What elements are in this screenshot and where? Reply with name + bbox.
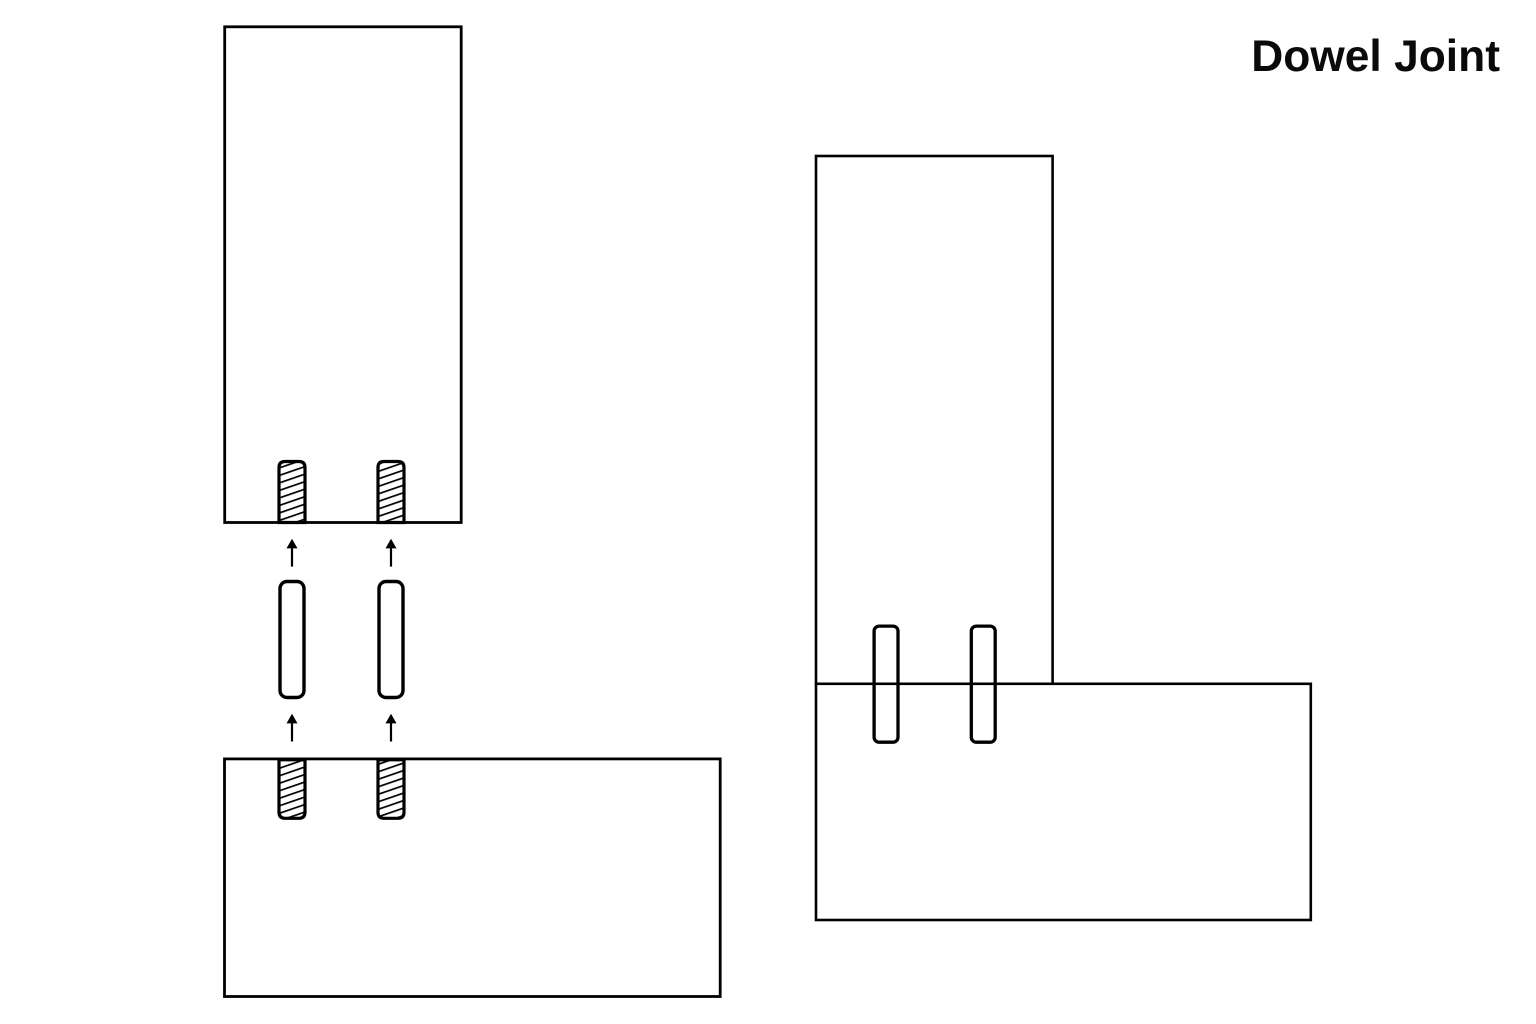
svg-text:Dowel Joint: Dowel Joint	[1251, 32, 1500, 81]
dowel pin 1 (free, left column)	[280, 582, 304, 698]
dowel pin 2 (free, right column)	[379, 582, 403, 698]
dowel pin 3 (hidden inside assembled joint, left)	[874, 626, 898, 742]
board C: vertical board of assembled joint (right)	[816, 156, 1053, 684]
board A: upper vertical board (exploded view, left)	[225, 27, 462, 523]
dowel pin 4 (hidden inside assembled joint, right)	[971, 626, 995, 742]
arrow: upper right insertion arrow	[386, 539, 397, 567]
arrow: lower right insertion arrow	[386, 714, 397, 742]
board D: horizontal board of assembled joint (right)	[816, 684, 1311, 920]
arrow: upper left insertion arrow	[287, 539, 298, 567]
dowel hole B1 (hatched) in board B	[279, 760, 305, 819]
board B: lower horizontal board (exploded view, left)	[225, 759, 721, 997]
dowel hole A2 (hatched) in board A	[378, 462, 404, 523]
dowel hole B2 (hatched) in board B	[378, 760, 404, 819]
dowel hole A1 (hatched) in board A	[279, 462, 305, 523]
arrow: lower left insertion arrow	[287, 714, 298, 742]
